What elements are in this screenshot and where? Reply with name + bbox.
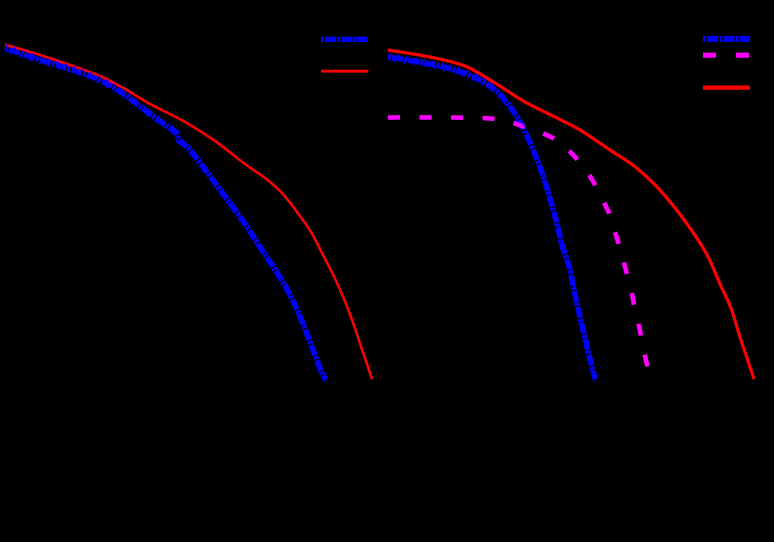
left panel blue curve fuzz (lower edge) bbox=[4, 51, 326, 383]
left panel legend: blue dash-dot sample bbox=[321, 37, 368, 42]
right panel legend: magenta dashed sample bbox=[703, 53, 750, 58]
left panel legend: red solid sample bbox=[321, 70, 368, 73]
right panel red solid curve bbox=[388, 50, 754, 379]
right panel legend: red solid sample bbox=[703, 85, 750, 89]
left panel red solid curve bbox=[5, 45, 372, 380]
right panel magenta dashed curve bbox=[388, 117, 650, 380]
left panel blue dash-dot curve bbox=[5, 48, 327, 380]
right panel blue curve fuzz (lower edge) bbox=[387, 60, 594, 382]
left panel blue curve fuzz (upper edge) bbox=[6, 45, 328, 377]
right panel blue dash-dot curve bbox=[388, 57, 595, 379]
right panel blue curve fuzz (upper edge) bbox=[389, 54, 596, 376]
right panel legend: blue dash-dot sample bbox=[703, 36, 750, 42]
